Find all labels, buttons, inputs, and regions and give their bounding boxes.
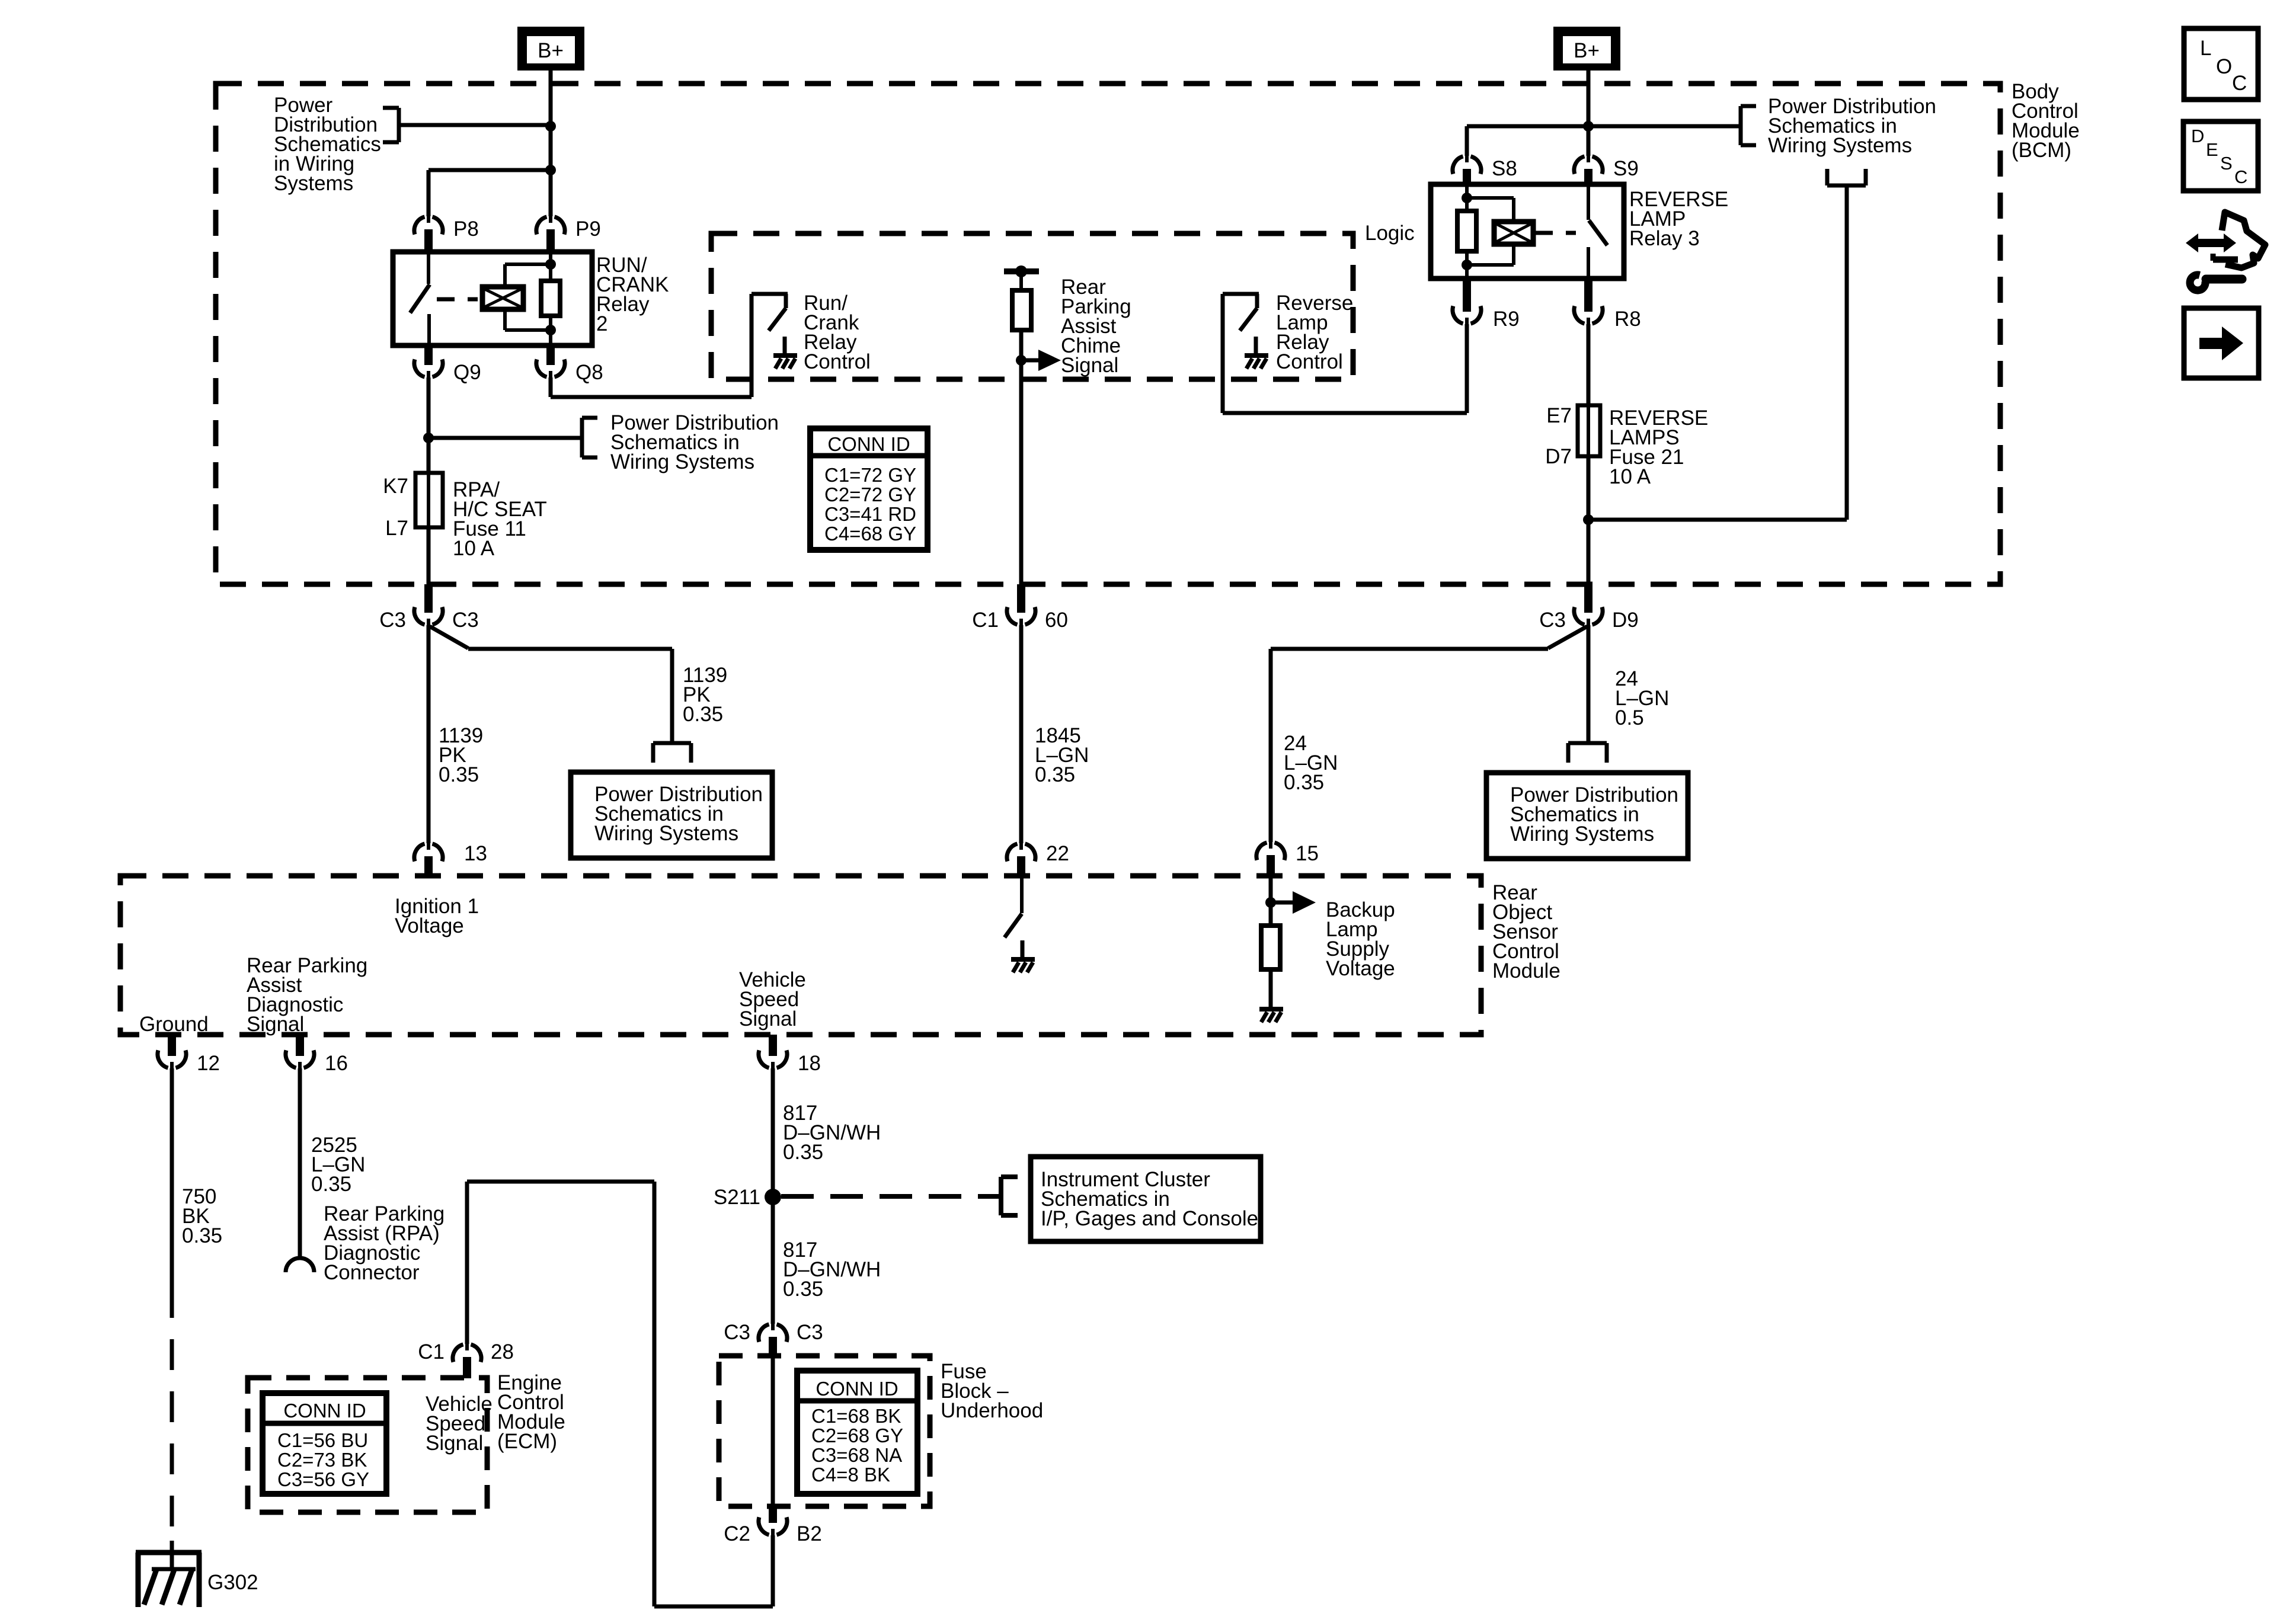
svg-text:Ground: Ground <box>139 1013 209 1036</box>
node: coil top junction <box>545 259 556 270</box>
svg-text:Wiring Systems: Wiring Systems <box>594 822 738 845</box>
svg-text:C3: C3 <box>452 609 479 632</box>
svg-text:C4=8 BK: C4=8 BK <box>811 1464 890 1486</box>
connector 15 <box>1256 843 1285 860</box>
svg-text:C3=68 NA: C3=68 NA <box>811 1444 902 1466</box>
connector R9 <box>1463 279 1471 312</box>
wire: ground 750 BK down (solid) <box>170 1068 174 1287</box>
relay 3 coil loop bottom <box>1512 244 1515 265</box>
terminal bracket above Power Distribution box (left) <box>653 741 691 745</box>
svg-text:0.35: 0.35 <box>1035 763 1075 786</box>
svg-text:0.35: 0.35 <box>683 703 723 726</box>
wire: Q8 down and right to Run/Crank relay control switch <box>549 377 553 397</box>
ground symbol at chime switch <box>1021 940 1025 959</box>
wire: fuse 21 down to junction <box>1587 456 1591 520</box>
svg-text:D: D <box>2191 126 2204 146</box>
wire: C1 60 down to connector 22 <box>1019 625 1024 843</box>
wire: R9 down to switch wire <box>1465 324 1469 413</box>
arrow: backup lamp supply voltage <box>1271 901 1293 905</box>
svg-text:C2=73 BK: C2=73 BK <box>277 1449 367 1471</box>
svg-text:0.35: 0.35 <box>182 1224 222 1247</box>
svg-text:Wiring Systems: Wiring Systems <box>610 450 754 473</box>
wire: junction right and up to BCM bracket <box>1588 518 1847 522</box>
svg-text:P9: P9 <box>575 217 601 241</box>
wire: junction left to S8 <box>1467 124 1588 129</box>
bracket at instrument cluster reference <box>999 1177 1003 1215</box>
svg-text:12: 12 <box>197 1052 220 1075</box>
wire: S211 down to connector C3 <box>771 1197 775 1324</box>
svg-text:2: 2 <box>596 312 607 335</box>
wire: C3 branch diagonal to 1139 PK branch <box>430 626 468 648</box>
node: relay 3 resistor top junction <box>1462 193 1472 203</box>
off-page bracket to Power Distribution (top left) <box>397 108 401 142</box>
svg-text:C1=68 BK: C1=68 BK <box>811 1405 901 1427</box>
connector P9 <box>536 217 565 235</box>
connector C2 B2 <box>769 1506 777 1523</box>
svg-text:Q9: Q9 <box>453 361 481 384</box>
svg-text:18: 18 <box>798 1052 821 1075</box>
svg-text:E7: E7 <box>1546 404 1572 427</box>
connector 22 <box>1007 844 1035 862</box>
relay box: RUN/CRANK Relay 2 <box>393 252 592 345</box>
svg-text:E: E <box>2206 139 2218 160</box>
svg-text:CONN ID: CONN ID <box>283 1400 366 1422</box>
svg-text:22: 22 <box>1046 842 1069 865</box>
relay 3 switch contact <box>1587 184 1590 220</box>
icon DESC <box>2183 121 2258 191</box>
svg-text:S8: S8 <box>1492 157 1517 180</box>
svg-text:Voltage: Voltage <box>395 914 464 937</box>
ground symbol at Reverse lamp relay control <box>1254 337 1258 356</box>
svg-text:0.35: 0.35 <box>311 1173 351 1196</box>
terminal bar above chime resistor <box>1004 268 1039 274</box>
wire: fuse 11 down to BCM edge <box>427 527 431 585</box>
svg-text:0.5: 0.5 <box>1615 706 1644 729</box>
wire: junction down through BCM edge <box>1587 520 1591 585</box>
svg-text:Module: Module <box>1492 959 1560 982</box>
wire: connector 18 down to S211 <box>771 1068 775 1197</box>
svg-text:15: 15 <box>1296 842 1319 865</box>
fuse: REVERSE LAMPS Fuse 21 10 A <box>1578 405 1600 456</box>
wire: Reverse lamp control switch to R9 <box>1223 411 1467 415</box>
svg-text:28: 28 <box>491 1340 514 1363</box>
arrow: chime signal to label <box>1021 359 1038 363</box>
svg-text:R8: R8 <box>1614 308 1641 331</box>
svg-text:D7: D7 <box>1545 445 1572 468</box>
svg-text:C3=56 GY: C3=56 GY <box>277 1468 369 1490</box>
wire: R8 down to fuse 21 <box>1587 324 1591 405</box>
svg-text:C3: C3 <box>724 1321 750 1344</box>
switch: Reverse Lamp Relay Control <box>1221 294 1225 413</box>
svg-text:60: 60 <box>1045 609 1068 632</box>
wire: chime resistor down to arrow junction <box>1019 330 1024 360</box>
svg-text:S9: S9 <box>1613 157 1639 180</box>
svg-text:10 A: 10 A <box>453 537 495 560</box>
reference box: Power Distribution Schematics in Wiring Systems (left) <box>571 772 772 858</box>
node: chime signal junction <box>1016 355 1027 366</box>
svg-text:C3: C3 <box>797 1321 823 1344</box>
connector S8 <box>1453 156 1481 174</box>
wire: S211 dashed link to instrument cluster <box>781 1194 1001 1199</box>
wire: junction down to second junction <box>549 126 553 170</box>
module box: Logic (inside BCM), dashed outline <box>711 233 1353 379</box>
svg-text:13: 13 <box>464 842 487 865</box>
conn id table (ECM) <box>263 1393 386 1494</box>
wire: B+ right down to junction <box>1587 71 1591 126</box>
svg-text:L: L <box>2200 37 2211 60</box>
svg-text:L7: L7 <box>385 517 408 540</box>
conn id table (fuse block) <box>797 1371 917 1494</box>
svg-text:B2: B2 <box>797 1522 822 1545</box>
node: junction at B+ right feed <box>1583 121 1594 132</box>
off-page bracket to Power Distribution (top right) <box>1739 106 1743 145</box>
wire: junction above fuse 11 <box>427 377 431 473</box>
node: chime supply junction <box>1015 265 1027 277</box>
conn id table (BCM) <box>810 428 928 550</box>
svg-text:S211: S211 <box>714 1186 760 1209</box>
svg-text:C1=56 BU: C1=56 BU <box>277 1429 368 1451</box>
wire: B+ left down to junction <box>549 71 553 126</box>
icon LOC <box>2184 28 2258 100</box>
terminal: RPA diagnostic connector <box>286 1258 314 1272</box>
relay 2 actuator dashed link <box>437 297 478 302</box>
node: junction at B+ left feed <box>545 121 556 132</box>
svg-text:C: C <box>2232 72 2247 95</box>
node: relay 3 resistor bottom junction <box>1462 260 1472 270</box>
fuse: RPA/HC SEAT Fuse 11 10 A <box>415 473 443 527</box>
svg-text:(ECM): (ECM) <box>497 1430 557 1453</box>
svg-text:C3=41 RD: C3=41 RD <box>824 503 916 525</box>
wire: D9 diagonal branch to backup lamp column <box>1548 626 1587 648</box>
wire: D9 down to terminal bracket <box>1587 625 1591 743</box>
svg-text:D9: D9 <box>1612 609 1639 632</box>
connector 16 <box>296 1035 304 1056</box>
svg-text:Signal: Signal <box>1061 354 1118 377</box>
svg-text:C2: C2 <box>724 1522 750 1545</box>
svg-text:C1: C1 <box>972 609 999 632</box>
svg-text:Control: Control <box>1276 350 1343 373</box>
connector Q8 <box>546 345 555 365</box>
svg-text:Control: Control <box>804 350 871 373</box>
svg-text:Relay 3: Relay 3 <box>1629 227 1700 250</box>
module box: Body Control Module (BCM), dashed outline <box>216 84 2000 584</box>
module box: Fuse Block - Underhood, dashed outline <box>719 1356 930 1506</box>
relay 3 coil <box>1494 222 1533 244</box>
svg-text:B+: B+ <box>538 39 564 62</box>
svg-text:0.35: 0.35 <box>439 763 479 786</box>
ground symbol at backup lamp load <box>1269 990 1273 1009</box>
svg-text:Voltage: Voltage <box>1326 957 1395 980</box>
connector 18 <box>769 1035 777 1056</box>
resistor: rear parking assist chime load <box>1019 271 1023 290</box>
relay 2 coil top wire <box>503 264 507 287</box>
switch: rear parking assist chime (in ROSCM) <box>1020 876 1024 913</box>
node: junction feeding P8 <box>545 165 556 175</box>
switch: Run/Crank Relay Control <box>750 294 754 397</box>
relay 3 resistor <box>1465 184 1469 211</box>
svg-text:Systems: Systems <box>274 172 353 195</box>
connector Q9 <box>424 345 433 365</box>
power symbol B+ (right) <box>1553 27 1620 71</box>
connector C1 60 (chime signal) <box>1017 584 1025 613</box>
svg-text:Connector: Connector <box>324 1261 420 1284</box>
svg-text:C4=68 GY: C4=68 GY <box>824 523 916 545</box>
wire: Q9 down to junction <box>427 377 431 438</box>
svg-text:C3: C3 <box>1539 609 1566 632</box>
wire: B2 loop to ECM <box>771 1535 775 1606</box>
svg-text:C: C <box>2234 167 2247 187</box>
svg-text:0.35: 0.35 <box>1284 771 1324 794</box>
svg-text:CONN ID: CONN ID <box>827 433 910 455</box>
node: junction below fuse 21 <box>1583 514 1594 525</box>
svg-text:Underhood: Underhood <box>941 1399 1043 1422</box>
connector P8 <box>414 217 443 235</box>
wire: ground 750 BK down (dashed) <box>170 1287 174 1541</box>
connector 12 <box>168 1035 176 1056</box>
relay 3 coil loop top <box>1467 196 1514 200</box>
svg-text:(BCM): (BCM) <box>2012 139 2071 162</box>
connector 13 <box>414 844 443 862</box>
reference box: Instrument Cluster Schematics <box>1031 1157 1261 1241</box>
svg-text:S: S <box>2220 153 2233 174</box>
svg-text:O: O <box>2216 55 2232 78</box>
svg-text:C1=72 GY: C1=72 GY <box>824 464 916 486</box>
relay 2 coil bottom wire <box>503 309 507 330</box>
wire: through fuse block <box>771 1356 775 1506</box>
relay 2 switch contact <box>427 252 430 284</box>
connector C1 28 <box>453 1345 481 1362</box>
svg-text:C2=72 GY: C2=72 GY <box>824 484 916 505</box>
svg-text:10 A: 10 A <box>1609 465 1651 488</box>
svg-text:CONN ID: CONN ID <box>816 1378 898 1400</box>
off-page bracket to Power Distribution (middle) <box>580 418 584 457</box>
svg-text:B+: B+ <box>1574 39 1600 62</box>
svg-text:C1: C1 <box>418 1340 445 1363</box>
wire: ground 750 BK to ground symbol <box>170 1541 174 1569</box>
terminal bracket above Power Distribution box (right) <box>1568 741 1607 745</box>
svg-text:Wiring Systems: Wiring Systems <box>1510 822 1654 846</box>
svg-text:0.35: 0.35 <box>783 1141 823 1164</box>
svg-text:Q8: Q8 <box>575 361 603 384</box>
off-page bracket under top-right text <box>1827 184 1866 188</box>
module box: Rear Object Sensor Control Module, dashed outline <box>120 876 1481 1035</box>
wire: junction left and down to P8 <box>428 168 551 172</box>
svg-text:Signal: Signal <box>739 1007 797 1030</box>
svg-text:Signal: Signal <box>426 1432 483 1455</box>
wire: chime signal down to BCM edge <box>1019 360 1024 585</box>
svg-text:P8: P8 <box>453 217 479 241</box>
icon wrench <box>2190 275 2205 290</box>
connector C3 (BCM to fuse 11 wire) <box>424 584 433 613</box>
reference box: Power Distribution Schematics in Wiring Systems (right) <box>1486 773 1688 859</box>
svg-text:G302: G302 <box>207 1571 258 1594</box>
node: coil bottom junction <box>545 325 556 335</box>
node S211 <box>765 1189 781 1205</box>
svg-text:C2=68 GY: C2=68 GY <box>811 1425 903 1446</box>
svg-text:Logic: Logic <box>1365 222 1415 245</box>
icon harness outline <box>2222 212 2265 268</box>
icon harness double arrow <box>2186 233 2236 252</box>
icon forward arrow box <box>2184 308 2259 378</box>
resistor: backup lamp load <box>1269 902 1273 926</box>
svg-text:Wiring Systems: Wiring Systems <box>1768 134 1912 157</box>
wire: junction right to bracket <box>1588 124 1741 129</box>
wire: 2525 L-GN down to diagnostic connector <box>298 1068 302 1259</box>
wire: junction to left bracket <box>399 123 551 127</box>
svg-text:I/P, Gages and Console: I/P, Gages and Console <box>1041 1207 1258 1230</box>
connector R8 <box>1584 279 1593 312</box>
svg-text:0.35: 0.35 <box>783 1278 823 1301</box>
svg-text:K7: K7 <box>383 475 408 498</box>
connector S9 <box>1574 156 1603 174</box>
wire: backup lamp supply inside ROSCM <box>1269 876 1273 902</box>
connector C3 C3 (fuse block) <box>759 1324 787 1342</box>
power symbol B+ (left) <box>517 27 584 71</box>
wire: junction down to S9 <box>1587 126 1591 156</box>
svg-text:16: 16 <box>325 1052 348 1075</box>
ground G302 symbol <box>136 1550 202 1555</box>
relay 3 actuator dashed link <box>1535 231 1576 235</box>
relay box: REVERSE LAMP Relay 3 <box>1431 184 1624 279</box>
wire: C3 down to connector 13 <box>427 625 431 843</box>
node: junction below Q9 <box>423 433 434 443</box>
svg-text:C3: C3 <box>379 609 406 632</box>
connector C3 D9 (reverse lamps feed) <box>1584 584 1593 613</box>
relay 2 resistor <box>549 252 552 281</box>
wire: junction right to bracket <box>428 436 582 440</box>
module box: Engine Control Module (ECM), dashed outline <box>248 1378 487 1512</box>
ground symbol at Run/Crank relay control <box>783 337 787 356</box>
svg-text:R9: R9 <box>1493 308 1520 331</box>
svg-text:Signal: Signal <box>247 1013 304 1036</box>
wire: junction down to P9 <box>549 170 553 216</box>
relay 2 coil <box>482 287 523 309</box>
node: backup lamp junction <box>1265 897 1276 908</box>
